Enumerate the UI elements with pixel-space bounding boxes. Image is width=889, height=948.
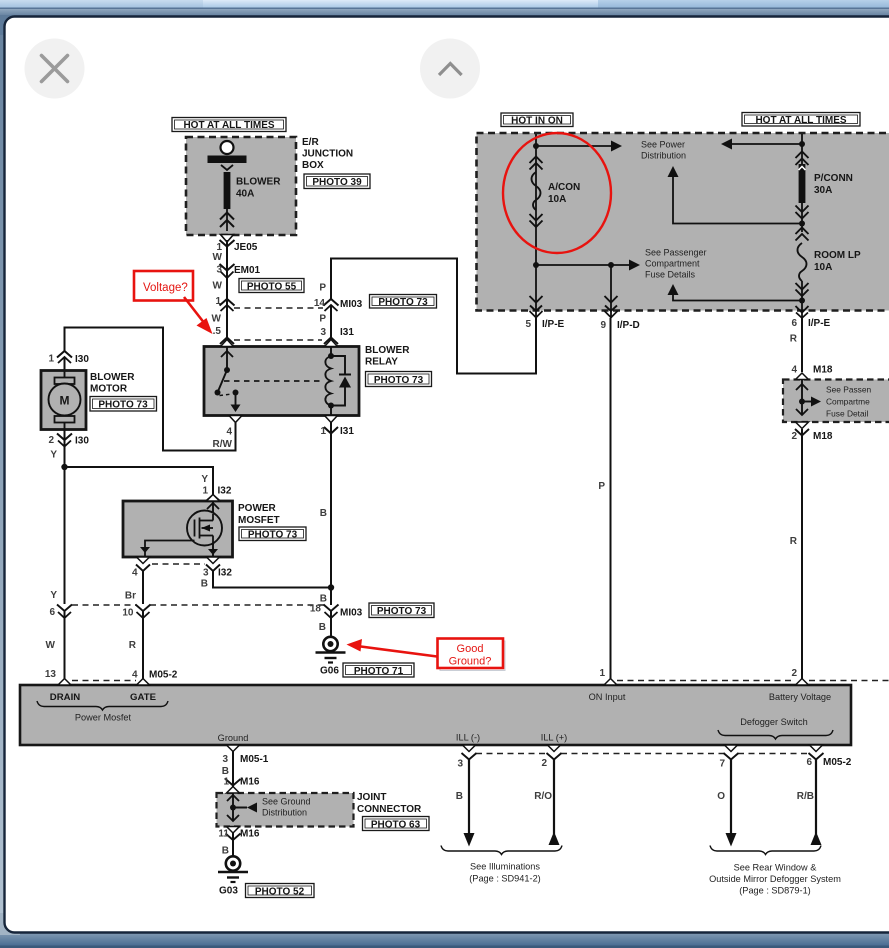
svg-text:JUNCTION: JUNCTION (302, 149, 353, 160)
M18 notch top (796, 373, 809, 380)
svg-text:2: 2 (48, 435, 54, 446)
label E/R JUNCTION BOX (302, 137, 353, 171)
brace See Rear Window (710, 846, 821, 855)
svg-text:9: 9 (600, 320, 606, 331)
svg-text:2: 2 (791, 668, 797, 679)
svg-text:Fuse Details: Fuse Details (645, 270, 696, 280)
fusible link symbol (208, 141, 247, 170)
wire R/O ILL(+) with input triangle (534, 759, 559, 845)
band notch defogger 7 (725, 745, 738, 752)
svg-text:PHOTO 73: PHOTO 73 (98, 400, 148, 411)
node A/CON top (533, 143, 539, 149)
scroll-top button (420, 39, 480, 99)
svg-text:MOSFET: MOSFET (238, 515, 280, 526)
svg-text:10A: 10A (548, 194, 566, 205)
mosfet notch top (207, 495, 220, 502)
svg-text:30A: 30A (814, 185, 832, 196)
svg-text:M16: M16 (240, 777, 260, 788)
svg-text:I/P-E: I/P-E (808, 318, 831, 329)
connector JE05 pin 1 (216, 240, 257, 253)
svg-text:See Power: See Power (641, 140, 685, 150)
svg-text:M05-2: M05-2 (823, 757, 852, 768)
wire from fuse to box edge (220, 209, 234, 231)
svg-text:3: 3 (216, 265, 222, 276)
svg-text:JE05: JE05 (234, 242, 258, 253)
svg-text:14: 14 (314, 298, 326, 309)
svg-text:Compartment: Compartment (645, 259, 700, 269)
svg-text:1: 1 (202, 486, 208, 497)
label box PHOTO 71 (343, 663, 414, 677)
svg-text:B: B (320, 508, 327, 519)
M18 joint connector box (dashed) (783, 380, 889, 423)
svg-text:HOT AT ALL TIMES: HOT AT ALL TIMES (755, 115, 846, 126)
wire ON input P column (598, 318, 610, 685)
svg-text:I/P-E: I/P-E (542, 319, 565, 330)
relay coil (325, 347, 334, 416)
wire I/P-E pin 5 exit (530, 265, 543, 318)
svg-text:10: 10 (122, 608, 134, 619)
blower motor box (41, 371, 86, 430)
connector row dashed ILL/defogger (476, 753, 809, 755)
relay notch bottom right (325, 416, 338, 423)
wire color P / connector I31 pin 3 (319, 314, 354, 345)
connector EM01 pin 3 (216, 264, 260, 278)
svg-text:(Page : SD879-1): (Page : SD879-1) (739, 886, 811, 896)
svg-text:DRAIN: DRAIN (50, 692, 80, 703)
svg-text:HOT IN ON: HOT IN ON (511, 116, 563, 127)
svg-text:1: 1 (215, 296, 221, 307)
svg-text:40A: 40A (236, 189, 254, 200)
svg-text:10A: 10A (814, 262, 832, 273)
svg-text:CONNECTOR: CONNECTOR (357, 804, 422, 815)
arrow to See Passenger Compartment Fuse Details (536, 248, 707, 280)
svg-text:18: 18 (310, 604, 322, 615)
svg-text:BOX: BOX (302, 160, 324, 171)
svg-text:6: 6 (791, 318, 797, 329)
joint connector internals (227, 793, 311, 821)
label HOT AT ALL TIMES (right) (742, 113, 860, 127)
label JOINT CONNECTOR (357, 792, 422, 815)
svg-text:4: 4 (132, 568, 138, 579)
svg-text:Outside Mirror Defogger System: Outside Mirror Defogger System (709, 874, 841, 884)
svg-text:P: P (319, 314, 326, 325)
mosfet notch bottom gate (137, 557, 150, 564)
svg-text:2: 2 (791, 431, 797, 442)
svg-text:PHOTO 73: PHOTO 73 (377, 606, 427, 617)
svg-text:B: B (456, 791, 463, 802)
label box PHOTO 52 (246, 884, 315, 898)
svg-text:M: M (60, 394, 70, 408)
label box PHOTO 73 (relay) (366, 372, 432, 387)
svg-text:4: 4 (226, 427, 232, 438)
svg-text:Voltage?: Voltage? (143, 282, 188, 294)
wire R/B defogger with input triangle (797, 759, 822, 845)
svg-text:R: R (790, 334, 798, 345)
svg-text:I30: I30 (75, 354, 89, 365)
svg-text:5: 5 (525, 319, 531, 330)
red highlight ellipse (503, 133, 611, 253)
svg-text:ROOM LP: ROOM LP (814, 250, 861, 261)
svg-text:See Ground: See Ground (262, 797, 311, 807)
wire into motor (64, 357, 66, 371)
wire color W .5 (212, 314, 222, 338)
svg-text:11: 11 (218, 829, 229, 840)
connector I32 pin 1 (201, 474, 232, 502)
label box PHOTO 73 (MI03 top) (370, 295, 437, 309)
transistor Q1 power mosfet symbol (140, 501, 222, 557)
svg-text:See Illuminations: See Illuminations (470, 862, 540, 872)
svg-text:PHOTO 71: PHOTO 71 (354, 666, 404, 677)
connector chevron into relay left (220, 338, 234, 345)
svg-text:A/CON: A/CON (548, 182, 580, 193)
svg-text:GATE: GATE (130, 692, 157, 703)
ground G03 (218, 856, 248, 896)
svg-text:R/W: R/W (213, 439, 233, 450)
svg-text:M05-2: M05-2 (149, 670, 178, 681)
svg-text:P: P (598, 481, 605, 492)
svg-text:BLOWER: BLOWER (365, 345, 410, 356)
svg-text:I32: I32 (218, 568, 232, 579)
fuse A/CON 10A (530, 157, 581, 228)
arrow left to See Power Distribution (721, 139, 802, 150)
node ROOM LP bottom junction (799, 281, 805, 318)
band notch GATE (137, 679, 150, 686)
wire junction to mosfet drain (65, 467, 214, 496)
wire P/CONN feed (801, 134, 803, 165)
svg-text:MI03: MI03 (340, 608, 363, 619)
connector I32 dashed row below mosfet (152, 563, 205, 565)
connector pin 6 defogger (806, 753, 851, 768)
svg-text:Ground?: Ground? (449, 656, 492, 668)
svg-text:JOINT: JOINT (357, 792, 386, 803)
svg-text:MI03: MI03 (340, 299, 363, 310)
svg-text:G03: G03 (219, 886, 238, 897)
svg-text:PHOTO 73: PHOTO 73 (248, 530, 298, 541)
svg-text:W: W (46, 640, 56, 651)
relay clamp diode (331, 356, 351, 406)
control module band (20, 685, 851, 745)
svg-text:PHOTO 73: PHOTO 73 (378, 297, 428, 308)
connector M16 pin 11 (218, 829, 259, 857)
svg-text:6: 6 (49, 607, 55, 618)
label box PHOTO 73 (MI03 bottom) (369, 603, 434, 618)
connector MI03 pin 1 (215, 296, 234, 311)
connector MI03 pin 6 (49, 605, 72, 619)
svg-text:Y: Y (201, 474, 208, 485)
joint connector notch top (227, 787, 240, 794)
svg-text:See Passenger: See Passenger (645, 248, 707, 258)
connector I31 pin 4 below relay (213, 427, 233, 451)
connector I30 pin 1 (48, 351, 89, 365)
connector M05-1 pin 3 (222, 751, 269, 793)
wire battery R column (790, 318, 833, 376)
svg-text:W: W (213, 281, 223, 292)
svg-text:B: B (319, 622, 326, 633)
band notch ILL(+) (548, 745, 561, 752)
wire B to ground (319, 611, 331, 637)
wire A/CON feed (535, 134, 537, 265)
wire R column to band (129, 611, 178, 685)
label HOT AT ALL TIMES (left) (172, 118, 286, 132)
svg-text:See Passen: See Passen (826, 385, 872, 395)
svg-text:PHOTO 55: PHOTO 55 (247, 282, 297, 293)
feedback arrow to See Power Distribution (668, 166, 803, 224)
svg-text:ILL (-): ILL (-) (456, 733, 480, 743)
svg-text:I32: I32 (218, 486, 232, 497)
connector M05-2 dashed row right (617, 680, 889, 682)
brace Power Mosfet (37, 701, 168, 710)
label POWER MOSFET (238, 503, 280, 526)
connector M18 pin 2 (791, 429, 832, 442)
annotation Good Ground? (438, 639, 506, 671)
svg-text:1: 1 (599, 668, 605, 679)
svg-text:3: 3 (203, 568, 209, 579)
svg-text:2: 2 (541, 758, 547, 769)
note See Rear Window (709, 863, 841, 896)
svg-text:13: 13 (45, 669, 57, 680)
svg-text:R: R (790, 536, 798, 547)
connector I30 pin 2 (48, 429, 89, 467)
svg-text:Power Mosfet: Power Mosfet (75, 713, 132, 723)
label BLOWER MOTOR (90, 372, 135, 395)
svg-text:R/O: R/O (534, 791, 552, 802)
wire relay output B column (320, 422, 355, 605)
I/P fuse box (dashed) (477, 133, 889, 311)
svg-text:Y: Y (50, 450, 57, 461)
joint connector notch bottom (227, 827, 240, 834)
svg-text:M18: M18 (813, 365, 833, 376)
svg-text:Defogger Switch: Defogger Switch (740, 717, 807, 727)
label box PHOTO 73 (motor) (90, 397, 157, 412)
wire O defogger with arrow (717, 759, 736, 847)
wire B ILL(-) with arrow (456, 759, 475, 847)
svg-text:O: O (717, 791, 725, 802)
node B junction (320, 584, 334, 604)
svg-text:(Page : SD941-2): (Page : SD941-2) (469, 874, 541, 884)
label box PHOTO 55 (239, 279, 304, 293)
relay notch top right (325, 340, 338, 347)
svg-text:ILL (+): ILL (+) (541, 733, 567, 743)
connector MI03 pin 10 (122, 605, 150, 619)
svg-text:6: 6 (806, 757, 812, 768)
svg-text:HOT AT ALL TIMES: HOT AT ALL TIMES (183, 120, 274, 131)
annotation arrow Good Ground (347, 639, 438, 657)
connector pin 2 ILL(+) (541, 753, 561, 769)
wire I/P-E 5 to relay coil route (331, 259, 536, 374)
svg-text:E/R: E/R (302, 137, 319, 148)
E/R junction box (186, 137, 296, 235)
connector pin 3 ILL(-) (457, 753, 476, 770)
svg-text:W: W (212, 314, 222, 325)
feedback arrow to See Passenger Compartment (668, 284, 803, 301)
corner patches (0, 15, 20, 35)
power mosfet box (123, 501, 233, 557)
svg-text:BLOWER: BLOWER (236, 177, 281, 188)
svg-text:PHOTO 63: PHOTO 63 (371, 820, 421, 831)
arrow to See Power Distribution (536, 140, 686, 161)
svg-text:Compartme: Compartme (826, 397, 870, 407)
connector I32 pin 3 (203, 565, 232, 579)
connector I31 pin row dashes (234, 339, 322, 341)
svg-text:PHOTO 39: PHOTO 39 (312, 177, 362, 188)
band notch Ground (227, 745, 240, 752)
connector I/P-E pin 6 (791, 306, 830, 329)
label box PHOTO 39 (304, 174, 370, 189)
wire motor column Y (50, 467, 64, 604)
dashed connector line MI03 (234, 307, 323, 309)
wire JE05/EM01 column (226, 240, 228, 346)
node motor/mosfet junction (61, 464, 67, 470)
label box PHOTO 63 (363, 817, 430, 831)
band notch defogger 6 (810, 745, 823, 752)
svg-text:Ground: Ground (218, 733, 249, 743)
node P/CONN bottom junction (799, 203, 805, 232)
svg-text:Battery Voltage: Battery Voltage (769, 692, 831, 702)
svg-text:I/P-D: I/P-D (617, 320, 640, 331)
wire W column to band (45, 611, 65, 685)
label BLOWER RELAY (365, 345, 410, 368)
band notch ILL(-) (463, 745, 476, 752)
svg-text:PHOTO 52: PHOTO 52 (255, 887, 305, 898)
svg-text:B: B (201, 579, 208, 590)
brace Defogger Switch (718, 730, 833, 739)
wire R column to band (790, 429, 802, 685)
svg-text:M18: M18 (813, 431, 833, 442)
svg-text:Fuse Detail: Fuse Detail (826, 409, 868, 419)
svg-text:P: P (319, 283, 326, 294)
ground G06 (316, 637, 346, 677)
svg-text:1: 1 (223, 777, 229, 788)
relay actuation dashed link (224, 380, 320, 382)
wire mosfet drain to node B (213, 571, 331, 588)
svg-text:3: 3 (222, 754, 228, 765)
annotation arrow Voltage (184, 297, 213, 334)
connector MI03 pin 14 (314, 298, 363, 311)
svg-text:ON Input: ON Input (589, 692, 626, 702)
svg-text:I31: I31 (340, 327, 354, 338)
node A/CON bottom junction (533, 262, 539, 268)
fuse ROOM LP 10A (796, 228, 861, 297)
note See Illuminations (469, 862, 541, 884)
svg-text:.5: .5 (213, 326, 222, 337)
annotation Voltage? (134, 271, 193, 301)
svg-text:R: R (129, 640, 137, 651)
svg-text:BLOWER: BLOWER (90, 372, 135, 383)
svg-text:7: 7 (719, 759, 725, 770)
connector I32 pin 4 (132, 565, 150, 579)
svg-text:I31: I31 (340, 426, 354, 437)
svg-text:M16: M16 (240, 829, 260, 840)
close button (25, 39, 85, 99)
relay notch top left (221, 340, 234, 347)
svg-text:3: 3 (320, 327, 326, 338)
svg-text:P/CONN: P/CONN (814, 173, 853, 184)
relay switch contact (215, 347, 241, 412)
svg-text:M05-1: M05-1 (240, 754, 269, 765)
svg-text:Br: Br (125, 591, 136, 602)
M18 internal node and arrow (796, 380, 872, 419)
svg-text:4: 4 (132, 670, 138, 681)
connector MI03 pin 18 (310, 604, 363, 619)
connector M05-2 dashed row at band (72, 680, 136, 682)
svg-text:Y: Y (50, 590, 57, 601)
fuse P/CONN 30A (796, 152, 853, 219)
connector I/P-D pin 9 (600, 320, 639, 331)
svg-text:W: W (213, 252, 223, 263)
motor M symbol (49, 371, 81, 429)
svg-text:B: B (222, 846, 229, 857)
svg-text:MOTOR: MOTOR (90, 384, 128, 395)
svg-text:1: 1 (48, 354, 54, 365)
label box PHOTO 73 (mosfet) (239, 527, 306, 541)
svg-text:RELAY: RELAY (365, 357, 398, 368)
svg-text:1: 1 (320, 426, 326, 437)
blower relay box (204, 347, 359, 416)
svg-text:PHOTO 73: PHOTO 73 (374, 375, 424, 386)
mosfet notch bottom drain (207, 557, 220, 564)
svg-text:4: 4 (791, 365, 797, 376)
connector notch at E/R box bottom (221, 235, 234, 243)
fuse BLOWER 40A (224, 172, 282, 209)
svg-text:Distribution: Distribution (641, 151, 686, 161)
band notch ON input (604, 679, 617, 686)
svg-text:3: 3 (457, 759, 463, 770)
svg-text:B: B (222, 766, 229, 777)
M18 notch bottom (796, 422, 809, 429)
svg-text:EM01: EM01 (234, 265, 261, 276)
node P/CONN top (799, 141, 805, 147)
svg-text:Distribution: Distribution (262, 808, 307, 818)
joint connector box (dashed) (217, 793, 354, 827)
svg-text:I30: I30 (75, 436, 89, 447)
connector I/P-E pin 5 (525, 319, 564, 330)
wire MI03 to I31 (330, 305, 332, 346)
brace See Illuminations (441, 846, 562, 855)
svg-text:R/B: R/B (797, 791, 814, 802)
svg-text:POWER: POWER (238, 503, 277, 514)
svg-text:Good: Good (457, 643, 484, 655)
wire I/P-D pin 9 exit (605, 265, 618, 318)
connector pin 7 defogger (719, 753, 738, 770)
wire gate column Br (125, 571, 143, 604)
connector MI03 dashed row (72, 604, 324, 606)
wire R/W route relay to motor (65, 328, 236, 451)
band notch DRAIN (58, 679, 71, 686)
svg-text:See Rear Window &: See Rear Window & (734, 863, 817, 873)
label HOT IN ON (501, 113, 573, 127)
svg-text:G06: G06 (320, 666, 339, 677)
band notch battery (796, 679, 809, 686)
relay notch bottom left (229, 416, 242, 423)
